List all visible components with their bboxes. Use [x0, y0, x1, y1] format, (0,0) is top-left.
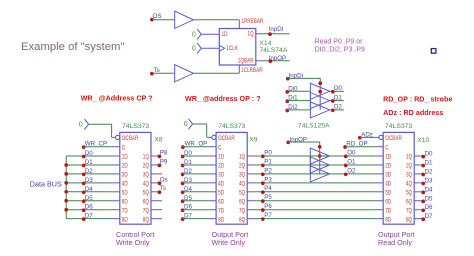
svg-text:Read P0..P9 or: Read P0..P9 or — [315, 38, 364, 45]
wire — [360, 136, 379, 138]
wire — [183, 164, 217, 166]
junction — [64, 181, 68, 185]
pin 4D — [385, 181, 391, 188]
svg-text:OCBAR: OCBAR — [122, 136, 139, 143]
svg-text:D7: D7 — [85, 213, 93, 220]
node D7 — [82, 213, 93, 221]
pin 6Q — [406, 199, 412, 206]
node P7 — [261, 212, 272, 221]
svg-text:O2: O2 — [347, 167, 356, 174]
svg-text:0: 0 — [192, 46, 196, 53]
svg-text:74LS373: 74LS373 — [218, 123, 245, 130]
input connector 0 (X9 OCBAR) — [184, 119, 193, 129]
svg-text:D0: D0 — [425, 151, 433, 158]
svg-text:8D: 8D — [218, 217, 224, 224]
wire stub — [151, 200, 162, 202]
label 74LS373 — [122, 123, 149, 130]
node D6 — [181, 204, 193, 212]
pin 4Q — [406, 181, 412, 188]
label 74LS373 — [218, 123, 245, 130]
pin 1D — [385, 154, 391, 161]
svg-text:2Q: 2Q — [239, 163, 245, 170]
wire — [66, 182, 120, 184]
wire — [193, 124, 212, 137]
junction — [64, 208, 68, 212]
pin 2Q — [143, 163, 149, 170]
svg-text:8D: 8D — [385, 217, 391, 224]
inverting bubble OCBAR — [116, 135, 120, 139]
junction — [318, 154, 322, 158]
wire — [84, 146, 120, 148]
inverting bubble OCBAR — [212, 135, 216, 139]
svg-text:D6: D6 — [425, 204, 433, 211]
node D6 — [82, 204, 93, 212]
svg-text:0: 0 — [79, 121, 83, 128]
pin 6Q — [143, 199, 149, 206]
pin 1CLRBAR — [241, 68, 263, 75]
svg-text:O1: O1 — [334, 94, 343, 101]
wire — [183, 146, 216, 148]
svg-text:2Q: 2Q — [406, 163, 412, 170]
node InpOP — [286, 136, 307, 144]
node D5 — [181, 195, 193, 203]
svg-text:Os: Os — [160, 176, 168, 183]
tri-state buffer U4B — [310, 93, 329, 109]
wire data bus — [65, 156, 67, 219]
svg-text:D5: D5 — [85, 195, 93, 202]
svg-text:P3: P3 — [264, 176, 272, 183]
svg-text:3Q: 3Q — [239, 172, 245, 179]
node D7 — [421, 213, 433, 221]
pin 4Q — [143, 181, 149, 188]
node Os — [158, 176, 168, 185]
svg-text:7Q: 7Q — [143, 208, 149, 215]
svg-text:P6: P6 — [264, 203, 272, 210]
svg-text:1Q: 1Q — [239, 154, 245, 161]
pin 1Q — [406, 154, 412, 161]
svg-text:6Q: 6Q — [406, 199, 412, 206]
wire — [414, 200, 423, 202]
pin 3D — [122, 172, 128, 179]
wire enable — [319, 147, 321, 174]
pin 5D — [122, 190, 128, 197]
pin 4D — [122, 181, 128, 188]
svg-text:8Q: 8Q — [239, 217, 245, 224]
svg-text:3Q: 3Q — [143, 172, 149, 179]
pin 5D — [385, 190, 391, 197]
svg-text:74LS373: 74LS373 — [385, 123, 412, 130]
svg-text:X10: X10 — [417, 137, 429, 144]
wire — [247, 200, 383, 202]
node Di2 — [285, 104, 298, 112]
svg-text:Data BUS: Data BUS — [30, 179, 62, 188]
node P5 — [261, 194, 272, 203]
svg-text:4Q: 4Q — [406, 181, 412, 188]
pin 7Q — [406, 208, 412, 215]
wire — [66, 218, 120, 220]
pin 1D — [222, 32, 228, 39]
svg-text:1CLRBAR: 1CLRBAR — [241, 68, 263, 75]
junction — [318, 81, 322, 85]
pin 8Q — [143, 217, 149, 224]
junction — [318, 145, 322, 149]
wire — [414, 155, 423, 157]
pin 1CLK — [226, 46, 238, 53]
wire — [151, 182, 159, 184]
pin 6D — [122, 199, 128, 206]
pin 5Q — [143, 190, 149, 197]
pin 8D — [122, 217, 128, 224]
node D1 — [421, 159, 433, 167]
node D4 — [181, 186, 193, 194]
svg-text:X9: X9 — [249, 136, 258, 143]
svg-text:1CLK: 1CLK — [226, 46, 238, 53]
svg-text:74LS373: 74LS373 — [122, 123, 149, 130]
svg-text:D3: D3 — [85, 177, 93, 184]
pin C — [122, 145, 125, 152]
node ADz — [358, 132, 373, 140]
node RD_OP — [343, 141, 367, 149]
svg-text:4Q: 4Q — [239, 181, 245, 188]
svg-text:3D: 3D — [122, 172, 128, 179]
node P6 — [261, 203, 272, 212]
wire — [345, 146, 383, 148]
latch X9 74LS373 — [216, 132, 247, 224]
node O2 — [344, 167, 356, 176]
svg-text:2D: 2D — [122, 163, 128, 170]
annotation Control Port caption — [116, 230, 154, 247]
svg-text:2D: 2D — [385, 163, 391, 170]
pin 4Q — [239, 181, 245, 188]
svg-text:D7: D7 — [425, 213, 433, 220]
tri-state buffer U5C — [310, 166, 329, 182]
node O0 — [331, 85, 342, 93]
wire — [66, 191, 120, 193]
pin 8D — [218, 217, 224, 224]
pin 6Q — [239, 199, 245, 206]
svg-text:2D: 2D — [218, 163, 224, 170]
node P4 — [261, 185, 272, 194]
input connector 0 (1D) — [192, 29, 219, 39]
svg-text:1D: 1D — [218, 154, 224, 161]
svg-text:P1: P1 — [264, 158, 272, 165]
wire — [247, 155, 383, 157]
svg-text:O0: O0 — [347, 149, 356, 156]
wire — [414, 173, 423, 175]
wire — [151, 164, 159, 166]
label X8 — [154, 136, 163, 143]
wire — [247, 182, 383, 184]
node D2 — [82, 168, 93, 176]
node D3 — [421, 177, 433, 185]
svg-text:6D: 6D — [218, 199, 224, 206]
svg-text:D4: D4 — [425, 186, 433, 193]
svg-text:P5: P5 — [264, 194, 272, 201]
svg-text:6D: 6D — [122, 199, 128, 206]
svg-text:C: C — [218, 145, 221, 152]
pin 3D — [218, 172, 224, 179]
wire — [183, 200, 217, 202]
svg-text:0: 0 — [192, 32, 196, 39]
wire — [287, 109, 310, 111]
wire stub — [151, 218, 162, 220]
junction — [64, 163, 68, 167]
wire — [66, 209, 120, 211]
wire — [414, 209, 423, 211]
pin C — [385, 145, 388, 152]
wire stub — [151, 173, 162, 175]
svg-text:6D: 6D — [385, 199, 391, 206]
wire enable — [319, 83, 321, 110]
svg-text:O0: O0 — [334, 85, 343, 92]
svg-text:6Q: 6Q — [239, 199, 245, 206]
annotation Output Port caption — [212, 230, 249, 247]
svg-text:Ts: Ts — [154, 67, 160, 74]
label X9 — [249, 136, 258, 143]
svg-text:1Q: 1Q — [143, 154, 149, 161]
pin 7D — [218, 208, 224, 215]
svg-text:4D: 4D — [218, 181, 224, 188]
pin 1D — [122, 154, 128, 161]
node Ts — [150, 67, 160, 76]
pin 1QBAR — [238, 58, 254, 65]
node D2 — [181, 168, 193, 176]
node WR_OP — [181, 141, 207, 149]
pin 1D — [218, 154, 224, 161]
latch X8 74LS373 — [120, 132, 151, 224]
svg-text:8Q: 8Q — [143, 217, 149, 224]
svg-text:P7: P7 — [264, 212, 272, 219]
svg-text:1D: 1D — [222, 32, 228, 39]
annotation RD OP header — [383, 95, 452, 104]
node P9 — [158, 158, 168, 167]
wire — [330, 109, 344, 111]
wire — [66, 200, 120, 202]
buffer U2 (OS) — [175, 11, 194, 28]
marker square — [431, 49, 436, 54]
pin 8D — [385, 217, 391, 224]
wire — [183, 155, 217, 157]
tri-state buffer U5A — [310, 148, 329, 164]
flip-flop X14 74LS74A — [219, 29, 256, 66]
svg-text:P0: P0 — [264, 149, 272, 156]
wire — [288, 78, 320, 83]
svg-text:7D: 7D — [385, 208, 391, 215]
svg-text:7D: 7D — [218, 208, 224, 215]
pin 3Q — [239, 172, 245, 179]
svg-text:X8: X8 — [154, 136, 163, 143]
pin 5Q — [406, 190, 412, 197]
pin 2D — [385, 163, 391, 170]
pin 1Q — [247, 31, 253, 38]
svg-text:1D: 1D — [385, 154, 391, 161]
node D0 — [181, 150, 193, 158]
svg-text:6Q: 6Q — [143, 199, 149, 206]
junction — [64, 172, 68, 176]
pin 1Q — [239, 154, 245, 161]
wire — [89, 124, 116, 137]
pin 3Q — [143, 172, 149, 179]
node InpDI — [268, 26, 284, 36]
latch X10 74LS373 — [383, 132, 414, 224]
node WR_CP — [82, 141, 107, 149]
svg-text:3Q: 3Q — [406, 172, 412, 179]
svg-text:1QBAR: 1QBAR — [238, 58, 254, 65]
node Ts — [158, 185, 166, 194]
node D7 — [181, 213, 193, 221]
svg-text:Read Only: Read Only — [378, 238, 412, 247]
svg-text:D4: D4 — [85, 186, 93, 193]
node O1 — [344, 158, 356, 167]
svg-text:D3: D3 — [425, 177, 433, 184]
svg-text:1PREBAR: 1PREBAR — [242, 19, 264, 26]
node InpDi — [286, 72, 303, 80]
annotation WR OP header — [185, 94, 261, 103]
label X10 — [417, 137, 429, 144]
inverting bubble OCBAR — [379, 135, 383, 139]
svg-text:DI0..Di2, P3..P9: DI0..Di2, P3..P9 — [315, 47, 365, 54]
svg-text:P4: P4 — [264, 185, 272, 192]
svg-text:5D: 5D — [122, 190, 128, 197]
svg-text:RD_OP : RD_ strobe: RD_OP : RD_ strobe — [383, 95, 452, 104]
wire — [193, 20, 239, 29]
wire — [414, 182, 423, 184]
pin 2D — [218, 163, 224, 170]
svg-text:C: C — [385, 145, 388, 152]
svg-text:C: C — [122, 145, 125, 152]
node D4 — [82, 186, 93, 194]
svg-text:O2: O2 — [334, 104, 343, 111]
wire — [152, 19, 175, 21]
node D0 — [421, 151, 433, 159]
svg-text:D6: D6 — [85, 204, 93, 211]
node P1 — [261, 158, 272, 167]
pin OCBAR — [218, 136, 235, 143]
wire — [414, 164, 423, 166]
pin 5Q — [239, 190, 245, 197]
svg-text:0: 0 — [184, 121, 188, 128]
node O0 — [344, 149, 356, 158]
svg-text:Example of "system": Example of "system" — [21, 41, 124, 53]
wire — [414, 218, 423, 220]
node O2 — [331, 104, 342, 112]
svg-text:5Q: 5Q — [143, 190, 149, 197]
annotation WR CP header — [81, 93, 153, 102]
wire — [256, 33, 290, 35]
svg-text:7Q: 7Q — [406, 208, 412, 215]
annotation read note — [315, 38, 365, 53]
svg-text:1Q: 1Q — [406, 154, 412, 161]
svg-text:2Q: 2Q — [143, 163, 149, 170]
svg-text:OCBAR: OCBAR — [218, 136, 235, 143]
pin 3D — [385, 172, 391, 179]
wire — [151, 191, 159, 193]
wire — [414, 191, 423, 193]
pin OCBAR — [122, 136, 139, 143]
svg-text:8D: 8D — [122, 217, 128, 224]
pin 2Q — [406, 163, 412, 170]
pin 6D — [385, 199, 391, 206]
svg-text:5D: 5D — [218, 190, 224, 197]
svg-text:4Q: 4Q — [143, 181, 149, 188]
pin OCBAR — [385, 136, 402, 143]
pin 4D — [218, 181, 224, 188]
svg-text:D1: D1 — [425, 159, 433, 166]
pin 6D — [218, 199, 224, 206]
junction — [318, 90, 322, 94]
node Di0 — [285, 85, 298, 93]
junction — [64, 190, 68, 194]
svg-text:7Q: 7Q — [239, 208, 245, 215]
svg-text:1Q: 1Q — [247, 31, 253, 38]
label 74LS125A — [298, 122, 330, 129]
svg-text:OCBAR: OCBAR — [385, 136, 402, 143]
annotation Data BUS — [30, 179, 62, 188]
junction — [64, 199, 68, 203]
node D1 — [181, 159, 193, 167]
svg-text:WR_ @Address CP ?: WR_ @Address CP ? — [81, 93, 153, 102]
svg-text:D2: D2 — [85, 168, 93, 175]
wire — [287, 90, 310, 92]
pin 1PREBAR — [242, 19, 264, 26]
node D3 — [181, 177, 193, 185]
node P2 — [261, 167, 272, 176]
node OS — [150, 13, 161, 21]
node O1 — [331, 94, 342, 102]
svg-text:1D: 1D — [122, 154, 128, 161]
svg-text:ADz : RD address: ADz : RD address — [383, 108, 443, 117]
pin 7D — [385, 208, 391, 215]
pin 2D — [122, 163, 128, 170]
label X14 74LS74A — [259, 40, 287, 54]
wire — [247, 164, 383, 166]
svg-text:Write Only: Write Only — [116, 238, 150, 247]
svg-text:D5: D5 — [425, 195, 433, 202]
node D6 — [421, 204, 433, 212]
pin 2Q — [239, 163, 245, 170]
svg-text:3D: 3D — [385, 172, 391, 179]
pin C — [218, 145, 221, 152]
buffer U3 (Ts) — [175, 65, 194, 82]
svg-text:D2: D2 — [425, 168, 433, 175]
wire — [183, 218, 217, 220]
svg-text:74LS74A: 74LS74A — [259, 47, 287, 54]
node D3 — [82, 177, 93, 185]
pin 7D — [122, 208, 128, 215]
wire — [288, 142, 320, 147]
svg-text:O1: O1 — [347, 158, 356, 165]
annotation title — [21, 41, 124, 53]
wire — [66, 155, 120, 157]
wire — [183, 182, 217, 184]
annotation ADz header — [383, 108, 443, 117]
svg-text:OS: OS — [153, 13, 162, 20]
wire — [183, 191, 217, 193]
node D2 — [421, 168, 433, 176]
wire — [256, 60, 290, 62]
input connector 0 (X8 OCBAR) — [79, 119, 89, 129]
annotation Output Port caption — [378, 230, 415, 247]
svg-text:5D: 5D — [385, 190, 391, 197]
wire — [151, 155, 159, 157]
pin 5D — [218, 190, 224, 197]
pin 3Q — [406, 172, 412, 179]
pin 8Q — [406, 217, 412, 224]
svg-text:5Q: 5Q — [239, 190, 245, 197]
wire stub — [151, 209, 162, 211]
svg-text:D1: D1 — [85, 159, 93, 166]
pin 7Q — [239, 208, 245, 215]
